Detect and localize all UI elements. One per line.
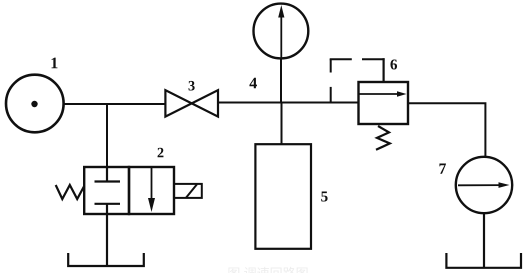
label 1 — [52, 58, 58, 69]
pilot line dashed horizontal — [330, 58, 385, 60]
pilot line drop to valve 6 — [383, 58, 385, 82]
valve 6 body — [359, 82, 409, 124]
wire: pump 1 to valve 3 — [63, 103, 166, 105]
valve 2 spring — [56, 185, 84, 199]
valve 6 spring — [376, 126, 390, 150]
label 5 — [321, 192, 327, 202]
wire: node 4 up to gauge — [280, 58, 282, 103]
wire: valve 6 to flow meter 7 — [408, 103, 485, 157]
wire: branch down to valve 2 — [106, 104, 108, 167]
valve 6 flow arrow — [359, 91, 407, 96]
pilot line dashed vertical — [330, 59, 332, 102]
valve 2 blocked port top — [95, 167, 121, 182]
label 2 — [158, 148, 164, 157]
valve 2 flow path arrow (down) — [148, 167, 155, 212]
valve 2 solenoid — [174, 184, 202, 198]
valve 2 body right cell — [129, 167, 174, 214]
label 3 — [189, 81, 195, 91]
pump 1 center dot — [31, 101, 37, 107]
valve 3 bowtie left triangle — [165, 90, 191, 116]
valve 3 bowtie right triangle — [192, 90, 218, 116]
tank under valve 2 — [68, 253, 144, 266]
wire: node 4 down to load 5 — [281, 103, 283, 145]
valve 2 body left cell — [84, 167, 129, 214]
flow meter 7 arrow — [458, 182, 510, 188]
wire: valve 2 to tank — [106, 214, 108, 266]
wire: meter 7 to tank — [483, 213, 485, 268]
valve 2 blocked port bottom — [95, 204, 121, 214]
tank under meter 7 — [446, 253, 521, 268]
svg-text:图 调速回路图: 图 调速回路图 — [227, 266, 308, 273]
node 4 label — [249, 78, 257, 89]
pump 1 circle — [6, 75, 64, 133]
pressure gauge circle — [254, 4, 309, 59]
label 7 — [439, 163, 446, 173]
pressure gauge needle arrow — [278, 5, 284, 58]
label 6 — [390, 59, 397, 69]
wire: valve 3 to valve 6 — [218, 102, 359, 104]
load 5 rectangle — [255, 144, 311, 249]
flow meter 7 circle — [456, 157, 512, 213]
